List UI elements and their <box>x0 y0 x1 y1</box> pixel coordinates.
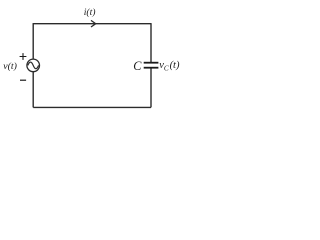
wire right upper <box>150 23 152 62</box>
wire right lower <box>150 68 152 107</box>
plus polarity of source <box>20 53 27 60</box>
svg-text:vC(t): vC(t) <box>159 60 180 73</box>
voltage source V1 (AC source circle with sine) <box>27 59 40 72</box>
wire left upper <box>32 23 34 59</box>
wire bottom <box>33 106 151 108</box>
label vC(t) <box>159 60 180 73</box>
label i(t) <box>84 7 96 18</box>
current arrow i(t) on top wire <box>91 20 96 27</box>
svg-text:C: C <box>133 59 142 73</box>
capacitor C (two plates) <box>144 63 159 68</box>
svg-text:v(t): v(t) <box>3 61 17 72</box>
wire left lower <box>32 72 34 108</box>
minus polarity of source <box>20 79 26 81</box>
wire top (node A to node B) <box>33 23 151 25</box>
svg-text:i(t): i(t) <box>84 7 96 18</box>
label v(t) <box>3 61 17 72</box>
label C <box>133 59 142 73</box>
